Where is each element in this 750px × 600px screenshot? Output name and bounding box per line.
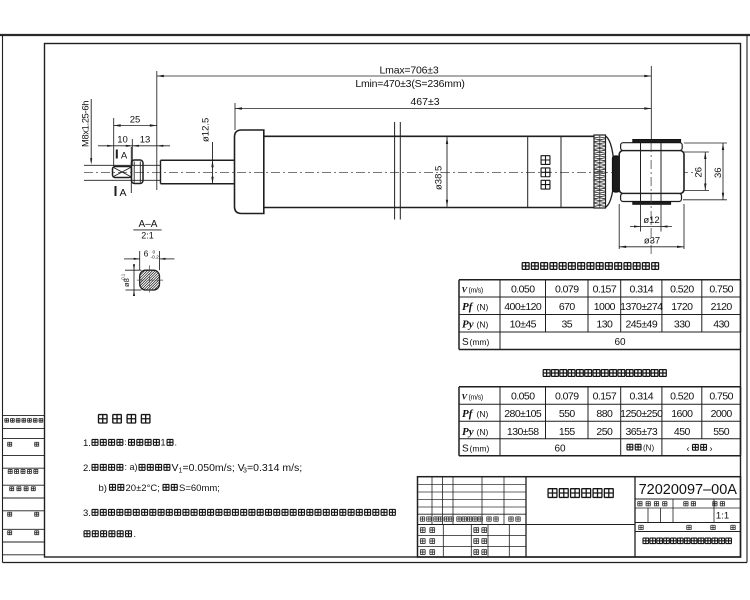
svg-text:10: 10 <box>117 135 128 146</box>
svg-text:V: V <box>172 462 179 474</box>
gas zone label <box>541 156 550 189</box>
svg-text:(mm): (mm) <box>470 337 490 347</box>
table 1 row S <box>462 337 626 348</box>
reservoir tube cylinder <box>264 130 594 214</box>
svg-text:0: 0 <box>153 249 156 255</box>
dimension 26 <box>684 152 709 191</box>
svg-text:0.157: 0.157 <box>593 283 617 295</box>
M8 shank edges and extension lines <box>84 165 161 180</box>
tech requirement 3 line 2 <box>84 529 136 539</box>
cylinder joint line 2 <box>560 136 562 207</box>
dimension 467 <box>235 66 651 143</box>
revision table grid <box>418 477 636 525</box>
svg-text:ø12.5: ø12.5 <box>201 118 212 142</box>
svg-text:670: 670 <box>559 301 576 313</box>
dimension 6 -0.2 across flats <box>124 248 174 270</box>
svg-text:0.520: 0.520 <box>670 283 694 295</box>
title block outline <box>418 477 741 557</box>
outer border top <box>0 34 750 36</box>
svg-text:36: 36 <box>713 167 724 178</box>
dimension dia 38.5 <box>434 137 449 207</box>
dimension dia 37 <box>619 204 684 249</box>
dimensions 10 and 13 <box>98 135 170 167</box>
outer border bottom <box>3 562 748 564</box>
eye bottom bumper <box>621 194 682 205</box>
svg-text:(m/s): (m/s) <box>469 287 483 294</box>
svg-text:155: 155 <box>559 426 576 438</box>
svg-text:Py: Py <box>462 426 474 438</box>
rubber pad <box>613 156 620 192</box>
svg-text:60: 60 <box>554 444 566 455</box>
svg-text:.: . <box>134 529 137 539</box>
svg-text:450: 450 <box>674 426 691 438</box>
left strip label row5 <box>8 512 39 516</box>
svg-text:245±49: 245±49 <box>625 319 657 331</box>
reservoir tube end cap <box>235 130 264 214</box>
svg-text:S: S <box>462 444 469 455</box>
svg-text:467±3: 467±3 <box>410 96 439 108</box>
svg-text:0.079: 0.079 <box>555 391 579 403</box>
lock nut <box>132 160 144 184</box>
svg-text:0.079: 0.079 <box>555 283 579 295</box>
table 2 grid <box>459 387 741 456</box>
cylinder joint line 1 <box>527 136 529 207</box>
svg-text:(N): (N) <box>477 320 489 330</box>
bellows boot <box>594 135 606 208</box>
table 2 row V <box>462 391 734 403</box>
dimension dia 12.5 <box>201 118 214 184</box>
tech requirement 3 line 1 <box>83 508 396 519</box>
dome end <box>606 135 615 208</box>
svg-text:0.314: 0.314 <box>630 283 654 295</box>
svg-text:Py: Py <box>462 319 474 331</box>
dimension dia 8 vertical <box>121 264 142 296</box>
section cut mark A upper <box>117 147 132 193</box>
tech requirement 1 <box>83 438 177 450</box>
svg-text:(N): (N) <box>477 302 489 312</box>
svg-text:6: 6 <box>144 248 149 258</box>
spring seat lines <box>395 122 401 220</box>
svg-text:20±2°C;: 20±2°C; <box>126 483 160 494</box>
left margin strip grid <box>3 416 45 555</box>
svg-text:=0.314 m/s;: =0.314 m/s; <box>247 462 302 474</box>
svg-text:2000: 2000 <box>711 408 733 420</box>
svg-text:ø12: ø12 <box>643 215 659 226</box>
svg-text:365±73: 365±73 <box>625 426 657 438</box>
svg-text:60: 60 <box>614 337 626 348</box>
inner frame <box>45 44 741 558</box>
eye ring <box>619 151 684 194</box>
outer border left <box>2 35 4 563</box>
svg-text:0.157: 0.157 <box>593 391 617 403</box>
svg-text:13: 13 <box>140 135 151 146</box>
svg-text:1250±250: 1250±250 <box>620 408 663 420</box>
svg-text:0.050: 0.050 <box>511 283 535 295</box>
svg-text:0.750: 0.750 <box>709 391 733 403</box>
piston rod <box>161 160 235 183</box>
svg-text:1:1: 1:1 <box>716 511 729 522</box>
table 2 row S <box>462 443 713 454</box>
svg-text:(mm): (mm) <box>470 444 490 454</box>
svg-text:430: 430 <box>713 319 730 331</box>
svg-text:.: . <box>175 438 178 448</box>
svg-text:0.314: 0.314 <box>630 391 654 403</box>
svg-text:35: 35 <box>561 319 572 331</box>
svg-text:Lmax=706±3: Lmax=706±3 <box>380 65 439 77</box>
svg-text:Pf: Pf <box>462 408 474 420</box>
dimension dia 12 <box>630 204 672 232</box>
section A-A title <box>133 219 161 241</box>
svg-text:A–A: A–A <box>139 219 158 230</box>
svg-text:400±120: 400±120 <box>504 301 542 313</box>
svg-text:(m/s): (m/s) <box>469 395 483 402</box>
svg-text:130: 130 <box>596 319 613 331</box>
svg-text:›: › <box>710 443 713 453</box>
svg-text:V: V <box>462 392 469 402</box>
svg-text:250: 250 <box>596 426 613 438</box>
svg-text:880: 880 <box>596 408 613 420</box>
svg-text:A: A <box>121 151 128 162</box>
svg-text:A: A <box>119 187 126 199</box>
svg-text:25: 25 <box>130 115 141 126</box>
eye inner sleeve lines <box>641 143 662 202</box>
svg-text:2:1: 2:1 <box>141 231 154 241</box>
dimension 25 <box>114 71 157 190</box>
thread label M8x1.25-6h with leader <box>81 99 93 165</box>
table 2 row Py <box>462 426 730 438</box>
svg-text:ø37: ø37 <box>644 236 660 247</box>
svg-text:b): b) <box>99 483 107 494</box>
svg-text:0.520: 0.520 <box>670 391 694 403</box>
svg-text:130±58: 130±58 <box>507 426 539 438</box>
svg-text:72020097–00A: 72020097–00A <box>639 482 738 498</box>
section A-A flat cross-section hatched <box>120 270 180 291</box>
svg-text:550: 550 <box>559 408 576 420</box>
svg-text:0.750: 0.750 <box>709 283 733 295</box>
tech requirement 2b <box>99 483 220 494</box>
svg-text:1.: 1. <box>83 438 91 449</box>
svg-text:(N): (N) <box>643 444 654 453</box>
svg-text:1000: 1000 <box>594 301 616 313</box>
section A-A centerlines <box>137 265 163 292</box>
left strip label row6 <box>8 531 39 535</box>
svg-text:280±105: 280±105 <box>504 408 542 420</box>
svg-text:2.: 2. <box>83 463 91 474</box>
svg-text:S=60mm;: S=60mm; <box>179 483 220 494</box>
svg-text:-0.2: -0.2 <box>151 255 160 261</box>
eye top bumper <box>621 139 683 150</box>
svg-text:2120: 2120 <box>711 301 733 313</box>
svg-text:ø38.5: ø38.5 <box>434 166 445 190</box>
svg-text:: a): : a) <box>125 462 138 472</box>
sheet count row <box>635 525 741 531</box>
stage mark cells <box>635 499 741 523</box>
svg-text:S: S <box>462 337 469 348</box>
company name <box>643 538 732 544</box>
left strip label row4 <box>10 487 36 491</box>
svg-text:10±45: 10±45 <box>510 319 537 331</box>
left strip label row2 <box>8 442 39 446</box>
svg-text:Lmin=470±3(S=236mm): Lmin=470±3(S=236mm) <box>355 78 464 90</box>
table 1 row Pf <box>462 301 732 313</box>
table 2 row Pf <box>462 408 732 420</box>
left strip label row3 <box>8 470 38 474</box>
svg-text:=0.050m/s; V: =0.050m/s; V <box>183 462 245 474</box>
main centerline <box>84 171 697 173</box>
signature rows grid <box>418 525 527 558</box>
left strip label row1 <box>5 419 43 423</box>
svg-text:330: 330 <box>674 319 691 331</box>
revision header labels <box>420 517 520 521</box>
title block vertical dividers <box>526 477 635 557</box>
tech requirements heading <box>98 415 150 423</box>
M8 thread flats with cross <box>113 167 132 178</box>
svg-text:550: 550 <box>713 426 730 438</box>
svg-text:(N): (N) <box>477 427 489 437</box>
svg-text:3.: 3. <box>83 508 91 519</box>
table 1 row Py <box>462 319 730 331</box>
outer border right <box>746 35 748 563</box>
svg-text:1: 1 <box>161 438 166 448</box>
svg-text:(N): (N) <box>477 409 489 419</box>
section cut mark A lower <box>116 186 127 199</box>
eye vertical centerline <box>650 143 652 256</box>
svg-text:‹: ‹ <box>687 443 690 453</box>
svg-text:M8x1.25-6h: M8x1.25-6h <box>81 101 91 147</box>
svg-text:26: 26 <box>694 167 705 178</box>
table 2 title <box>543 370 666 377</box>
svg-text:-0.1: -0.1 <box>121 273 126 281</box>
table 1 row V <box>462 283 734 295</box>
part number cell line <box>635 498 741 500</box>
svg-text:V: V <box>462 284 469 294</box>
svg-text::: : <box>125 438 127 447</box>
svg-text:1720: 1720 <box>671 301 693 313</box>
drawing title <box>548 489 614 498</box>
tech requirement 2a <box>83 462 302 475</box>
svg-text:0.050: 0.050 <box>511 391 535 403</box>
signature row labels <box>420 528 487 555</box>
table 1 title <box>522 263 659 270</box>
svg-text:Pf: Pf <box>462 301 474 313</box>
svg-text:1600: 1600 <box>671 408 693 420</box>
dimension 36 <box>683 143 727 200</box>
svg-text:1370±274: 1370±274 <box>620 301 663 313</box>
table 1 grid <box>459 280 741 350</box>
dimension Lmax=706 / Lmin=470 <box>157 65 652 91</box>
stage mark header row <box>635 502 741 508</box>
